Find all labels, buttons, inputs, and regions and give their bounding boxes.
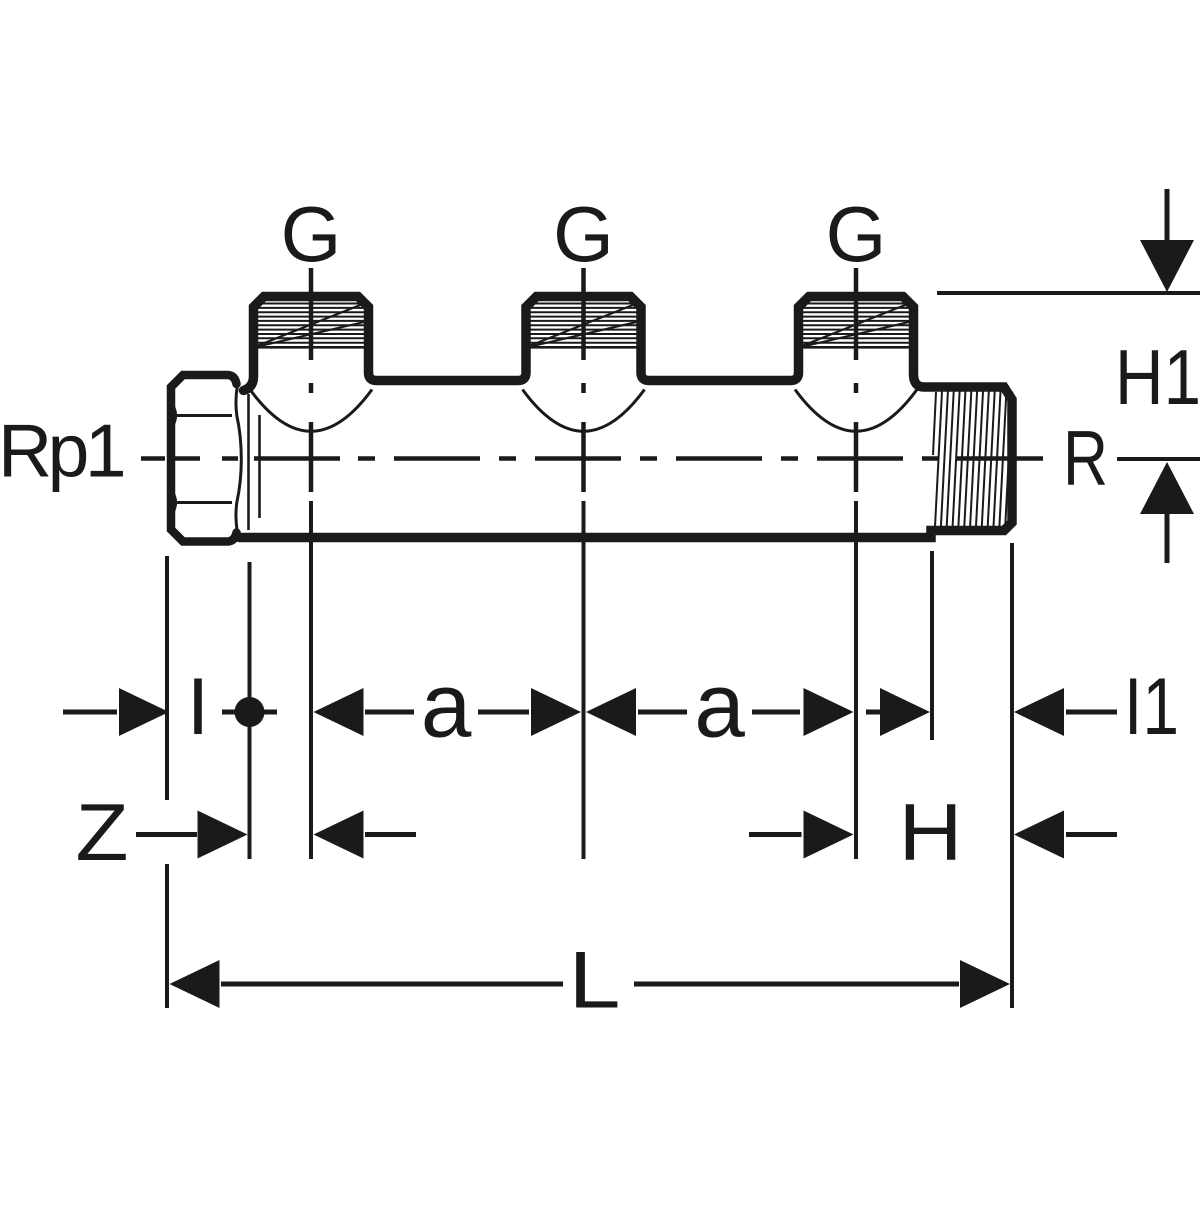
- bore arc under outlet G1: [250, 390, 372, 432]
- label H1: [1115, 333, 1200, 421]
- label R: [1063, 414, 1108, 502]
- extension line: left end face: [165, 556, 169, 1008]
- outlet G1 vertical centerline: [309, 268, 314, 859]
- manifold body outline with three G outlets and R male end: [240, 297, 1013, 538]
- label a second: [694, 656, 745, 757]
- bore arc under outlet G2: [523, 390, 645, 432]
- svg-text:I1: I1: [1124, 662, 1179, 752]
- svg-text:a: a: [421, 656, 472, 757]
- svg-text:G: G: [553, 190, 614, 278]
- dimension I: [63, 688, 169, 736]
- svg-text:Rp1: Rp1: [0, 409, 124, 493]
- svg-text:L: L: [569, 936, 621, 1026]
- H1 extension line top: [937, 291, 1200, 295]
- label L: [569, 936, 621, 1026]
- svg-text:Z: Z: [76, 788, 129, 878]
- thread hatch outlet G1: [258, 304, 364, 348]
- extension line: male thread shoulder: [930, 551, 934, 740]
- dimension I dot: [222, 697, 277, 727]
- label a first: [421, 656, 472, 757]
- H1 arrow up: [1140, 462, 1194, 563]
- dimension H: [749, 811, 1117, 859]
- svg-text:H1: H1: [1115, 333, 1200, 421]
- H1 extension line bottom: [1117, 457, 1200, 461]
- thread hatch outlet G3: [803, 304, 909, 348]
- dimension a second: [586, 688, 854, 736]
- label H: [899, 788, 963, 878]
- dimension a first: [314, 688, 582, 736]
- outlet G2 vertical centerline: [581, 268, 586, 859]
- label Rp1: [0, 409, 124, 493]
- label G3: [826, 190, 887, 278]
- svg-text:H: H: [899, 788, 963, 878]
- label I1: [1124, 662, 1179, 752]
- svg-text:G: G: [281, 190, 342, 278]
- label I: [187, 662, 210, 752]
- dimension L: [170, 960, 1011, 1008]
- dimension Z: [136, 811, 416, 859]
- male thread hatch R end: [933, 392, 1012, 527]
- label G1: [281, 190, 342, 278]
- thread hatch outlet G2: [531, 304, 637, 348]
- centerline (horizontal axis, dash-dot): [141, 456, 1043, 461]
- H1 arrow down: [1140, 189, 1194, 292]
- bore arc under outlet G3: [795, 390, 917, 432]
- svg-text:G: G: [826, 190, 887, 278]
- svg-text:I: I: [187, 662, 210, 752]
- nut bearing face lines: [249, 394, 260, 530]
- dimension I1: [866, 688, 1117, 736]
- extension line: nut/body joint: [248, 562, 252, 859]
- extension line: right end face: [1010, 543, 1014, 1008]
- hex nut left end: [171, 375, 241, 542]
- label G2: [553, 190, 614, 278]
- svg-text:a: a: [694, 656, 745, 757]
- label Z: [76, 788, 129, 878]
- outlet G3 vertical centerline: [854, 268, 859, 859]
- svg-text:R: R: [1063, 414, 1108, 502]
